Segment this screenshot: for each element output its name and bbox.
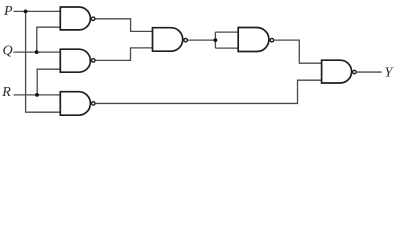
node junction dot on Q (35, 50, 39, 54)
node N1 junction dot at U5 input (214, 38, 218, 42)
inversion bubble of U1 (91, 17, 95, 21)
wire U4 output to node N1 (188, 39, 215, 41)
nand gate U6 body (322, 60, 352, 83)
node junction dot on P (24, 10, 28, 14)
node junction dot on R (35, 93, 39, 97)
wire U1 output to U4 input A (95, 19, 152, 32)
inversion bubble of U4 (184, 38, 188, 42)
nand gate U3 body (60, 92, 90, 116)
svg-text:P: P (3, 4, 13, 19)
wire input Q lead (14, 51, 61, 53)
wire input R lead (14, 94, 61, 96)
wire R branch to gate U2 input B (37, 69, 60, 95)
nand gate U4 body (153, 28, 183, 52)
wire Q branch to gate U1 input B (37, 27, 61, 52)
svg-text:Q: Q (3, 44, 13, 59)
nand gate U2 body (60, 49, 90, 72)
inversion bubble of U3 (92, 102, 96, 106)
wire U2 output to U4 input B (96, 48, 153, 61)
nand gate U5 body (238, 28, 269, 52)
wire U3 output to U6 input B (96, 80, 322, 103)
wire input P lead (14, 10, 61, 12)
inversion bubble of U2 (92, 59, 96, 63)
svg-text:R: R (1, 85, 11, 100)
wire P branch to gate U3 input B (26, 11, 61, 112)
wire U6 output to Y (357, 71, 382, 73)
wire U5 output to U6 input A (274, 40, 321, 63)
nand gate U1 body (60, 7, 90, 30)
inversion bubble of U6 (353, 70, 357, 74)
inversion bubble of U5 (270, 38, 274, 42)
wire N1 split to U5 inputs (215, 32, 238, 48)
